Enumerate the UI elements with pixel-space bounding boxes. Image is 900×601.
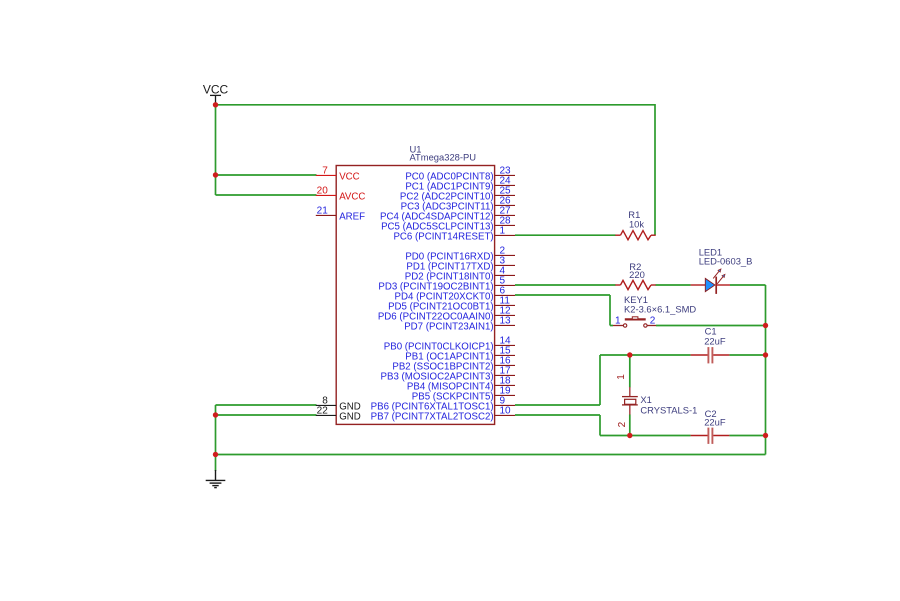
- svg-text:22: 22: [317, 405, 329, 416]
- svg-text:1: 1: [615, 315, 621, 326]
- wire GND pin 8 to left vertical: [216, 404, 317, 406]
- wire VCC to pin 20 (AVCC): [216, 194, 317, 196]
- wire pin 6 PD4 horizontal: [515, 294, 610, 296]
- wire down to KEY1: [610, 295, 613, 326]
- pin 3 PD1 (right): [406, 255, 515, 272]
- pin 2 PD0 (right): [405, 245, 515, 262]
- capacitor C2: [691, 428, 730, 444]
- svg-text:VCC: VCC: [339, 172, 359, 183]
- wire C1 rail left segment: [600, 354, 691, 356]
- wire crystal bottom stub: [629, 414, 631, 435]
- pin 22 GND (left): [316, 405, 361, 422]
- svg-text:13: 13: [500, 315, 512, 326]
- pin 28 PC5 (right): [381, 215, 515, 232]
- svg-text:22uF: 22uF: [704, 335, 726, 346]
- pin 18 PB4 (right): [407, 375, 515, 392]
- svg-text:GND: GND: [339, 412, 361, 423]
- label CRYSTALS-1: [640, 405, 697, 416]
- label C1 22uF: [704, 335, 726, 346]
- power flag VCC: [203, 83, 229, 104]
- svg-text:2: 2: [617, 421, 628, 427]
- wire pin 1 RESET to R1: [515, 234, 616, 236]
- label K2-3.6x6.1_SMD: [624, 303, 696, 314]
- ground: [206, 470, 226, 488]
- pin 10 PB7 (right): [371, 405, 515, 422]
- wire VCC left vertical: [215, 105, 217, 195]
- junction crystal top: [627, 352, 632, 357]
- pin 12 PD6 (right): [378, 305, 515, 322]
- svg-text:10: 10: [500, 405, 512, 416]
- svg-text:ATmega328-PU: ATmega328-PU: [410, 152, 477, 163]
- crystal X1 pin number 1: [616, 374, 627, 380]
- wire LED1 to right rail: [730, 284, 766, 286]
- wire C2 rail right segment: [729, 435, 765, 437]
- svg-text:PB7 (PCINT7XTAL2TOSC2): PB7 (PCINT7XTAL2TOSC2): [371, 412, 494, 423]
- label KEY1: [624, 294, 648, 305]
- junction VCC top: [213, 102, 218, 107]
- svg-text:2: 2: [650, 315, 656, 326]
- svg-text:22uF: 22uF: [704, 417, 726, 428]
- svg-text:220: 220: [629, 269, 645, 280]
- svg-text:7: 7: [322, 165, 328, 176]
- svg-text:10k: 10k: [629, 218, 644, 229]
- wire C1 rail right segment: [729, 354, 765, 356]
- resistor R1: [615, 231, 655, 240]
- pin 1 PC6 (right): [393, 225, 515, 242]
- junction VCC pin7: [213, 172, 218, 177]
- svg-text:20: 20: [317, 185, 329, 196]
- svg-text:X1: X1: [640, 394, 651, 405]
- svg-text:1: 1: [616, 374, 627, 380]
- wire pin 10 PB7 horizontal: [515, 414, 600, 416]
- junction crystal bottom: [627, 433, 632, 438]
- pin 14 PB0 (right): [384, 335, 515, 352]
- wire pin 5 PD3 to R2: [515, 284, 616, 286]
- svg-text:1: 1: [500, 225, 506, 236]
- pin 25 PC2 (right): [400, 185, 515, 202]
- svg-text:AVCC: AVCC: [339, 192, 365, 203]
- wire pin 9 PB6 horizontal: [515, 404, 600, 406]
- pushbutton KEY1: [613, 317, 656, 327]
- wire GND left vertical down to ground: [215, 405, 217, 471]
- label 10k: [629, 218, 644, 229]
- junction C1 right: [763, 352, 768, 357]
- wire VCC to pin 7: [216, 174, 317, 176]
- wire GND pin 22 to left vertical: [216, 414, 317, 416]
- svg-text:AREF: AREF: [339, 212, 365, 223]
- pin 15 PB1 (right): [405, 345, 515, 362]
- junction GND bottom rail: [213, 452, 218, 457]
- label 220: [629, 269, 645, 280]
- pin 19 PB5 (right): [412, 385, 515, 402]
- label C1: [705, 326, 717, 337]
- IC U1 value ATmega328-PU: [410, 152, 477, 163]
- pin 16 PB2 (right): [392, 355, 515, 372]
- capacitor C1: [691, 347, 730, 363]
- svg-text:PD7 (PCINT23AIN1): PD7 (PCINT23AIN1): [404, 322, 493, 333]
- pin 4 PD2 (right): [405, 265, 515, 282]
- label LED1: [699, 246, 722, 257]
- wire GND bottom rail: [216, 454, 766, 456]
- wire KEY1 pin 2 to right rail: [656, 325, 766, 327]
- label R2: [629, 261, 641, 272]
- svg-text:VCC: VCC: [203, 83, 229, 97]
- wire right rail vertical: [765, 285, 767, 455]
- pin 6 PD4 (right): [395, 285, 515, 302]
- IC U1 body: [336, 166, 494, 425]
- label X1: [640, 394, 651, 405]
- pin 5 PD3 (right): [378, 275, 515, 292]
- svg-text:LED-0603_B: LED-0603_B: [699, 255, 753, 266]
- crystal X1: [622, 387, 638, 415]
- junction GND pin22: [213, 412, 218, 417]
- wire crystal top stub: [629, 355, 631, 388]
- pin 17 PB3 (right): [381, 365, 515, 382]
- wire R2 to LED1: [656, 284, 691, 286]
- svg-text:K2-3.6×6.1_SMD: K2-3.6×6.1_SMD: [624, 303, 696, 314]
- pin 24 PC1 (right): [405, 175, 515, 192]
- label C2 22uF: [704, 417, 726, 428]
- KEY1 pin number 2: [650, 315, 656, 326]
- svg-text:CRYSTALS-1: CRYSTALS-1: [640, 405, 697, 416]
- label C2: [705, 408, 717, 419]
- resistor R2: [615, 280, 655, 289]
- svg-text:PC6 (PCINT14RESET): PC6 (PCINT14RESET): [393, 232, 493, 243]
- pin 23 PC0 (right): [405, 165, 515, 182]
- pin 21 AREF (left): [316, 205, 365, 222]
- pin 20 AVCC (left): [316, 185, 366, 202]
- wire VCC top rail horizontal: [216, 104, 656, 106]
- KEY1 pin number 1: [615, 315, 621, 326]
- crystal X1 pin number 2: [617, 421, 628, 427]
- pin 9 PB6 (right): [371, 395, 515, 412]
- wire C2 rail left segment: [600, 435, 691, 437]
- LED1 light arrows: [713, 269, 725, 284]
- label R1: [628, 209, 640, 220]
- pin 11 PD5 (right): [388, 295, 515, 312]
- pin 27 PC4 (right): [380, 205, 515, 222]
- label LED-0603_B: [699, 255, 753, 266]
- pin 13 PD7 (right): [404, 315, 515, 332]
- IC U1 reference designator U1: [410, 143, 422, 154]
- wire pin 9 rise to C1 rail: [599, 355, 601, 405]
- junction C2 right: [763, 433, 768, 438]
- junction KEY1 right rail: [763, 323, 768, 328]
- pin 8 GND (left): [316, 395, 361, 412]
- svg-text:21: 21: [317, 205, 329, 216]
- pin 7 VCC (left): [316, 165, 360, 182]
- wire VCC rail drop to R1 right end: [654, 104, 656, 235]
- pin 26 PC3 (right): [401, 195, 515, 212]
- wire pin 10 drop to C2 rail: [599, 415, 601, 436]
- LED LED1: [691, 277, 730, 294]
